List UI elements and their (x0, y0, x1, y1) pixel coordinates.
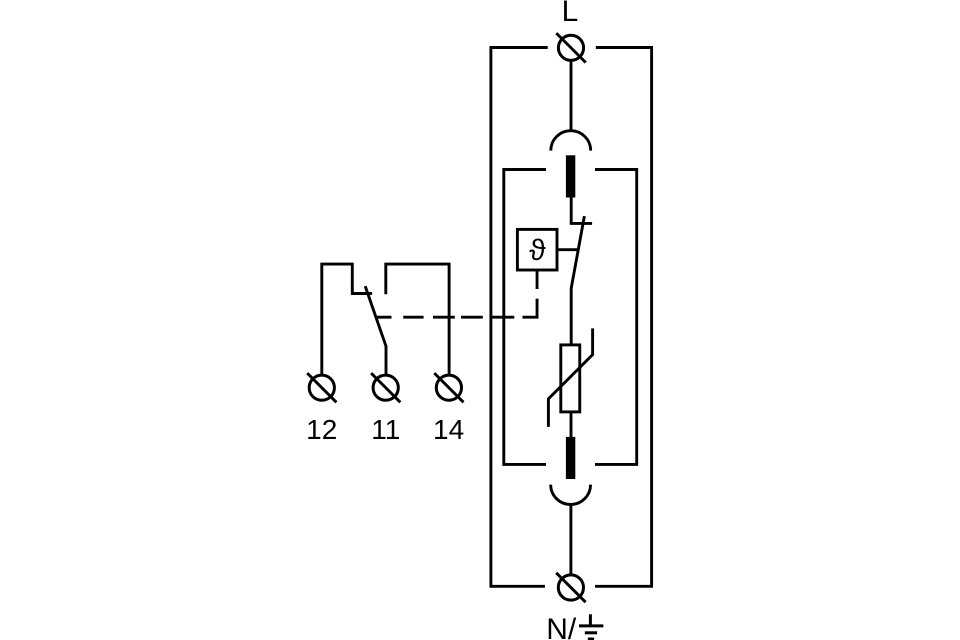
plug-in contact top: blade (566, 155, 575, 197)
svg-text:L: L (562, 0, 579, 28)
varistor (548, 328, 592, 427)
svg-text:N/: N/ (546, 613, 577, 640)
plug-in contact bottom: blade (566, 437, 575, 479)
terminal 12 (307, 373, 336, 402)
thermal disconnector fixed contact (570, 222, 592, 225)
changeover switch arm from terminal 11 (365, 286, 386, 375)
dashed mechanical linkage (376, 271, 537, 317)
plug-in contact top: socket arc (551, 131, 591, 151)
contact 14 fixed contact (386, 264, 449, 375)
wire thermal sensor to switch arm (557, 248, 578, 251)
terminal 11 (371, 373, 400, 402)
wire L terminal to plug contact (570, 60, 573, 129)
outer enclosure (491, 48, 652, 587)
protection module enclosure (504, 170, 637, 465)
contact 12 fixed contact (322, 264, 372, 375)
svg-text:11: 11 (371, 414, 400, 445)
wire varistor to bottom blade (570, 412, 573, 437)
ground (579, 614, 603, 639)
wire blade to disconnector contact (570, 198, 573, 224)
terminal 14 (434, 373, 463, 402)
svg-text:12: 12 (306, 414, 337, 445)
wire socket to N terminal (569, 505, 572, 575)
svg-text:14: 14 (433, 414, 464, 445)
terminal L (556, 33, 585, 62)
svg-text:ϑ: ϑ (529, 234, 546, 267)
thermal disconnector switch arm (571, 216, 584, 345)
thermal sensor U1 (517, 229, 557, 270)
terminal N (556, 573, 585, 602)
plug-in contact bottom: socket arc (551, 485, 591, 505)
